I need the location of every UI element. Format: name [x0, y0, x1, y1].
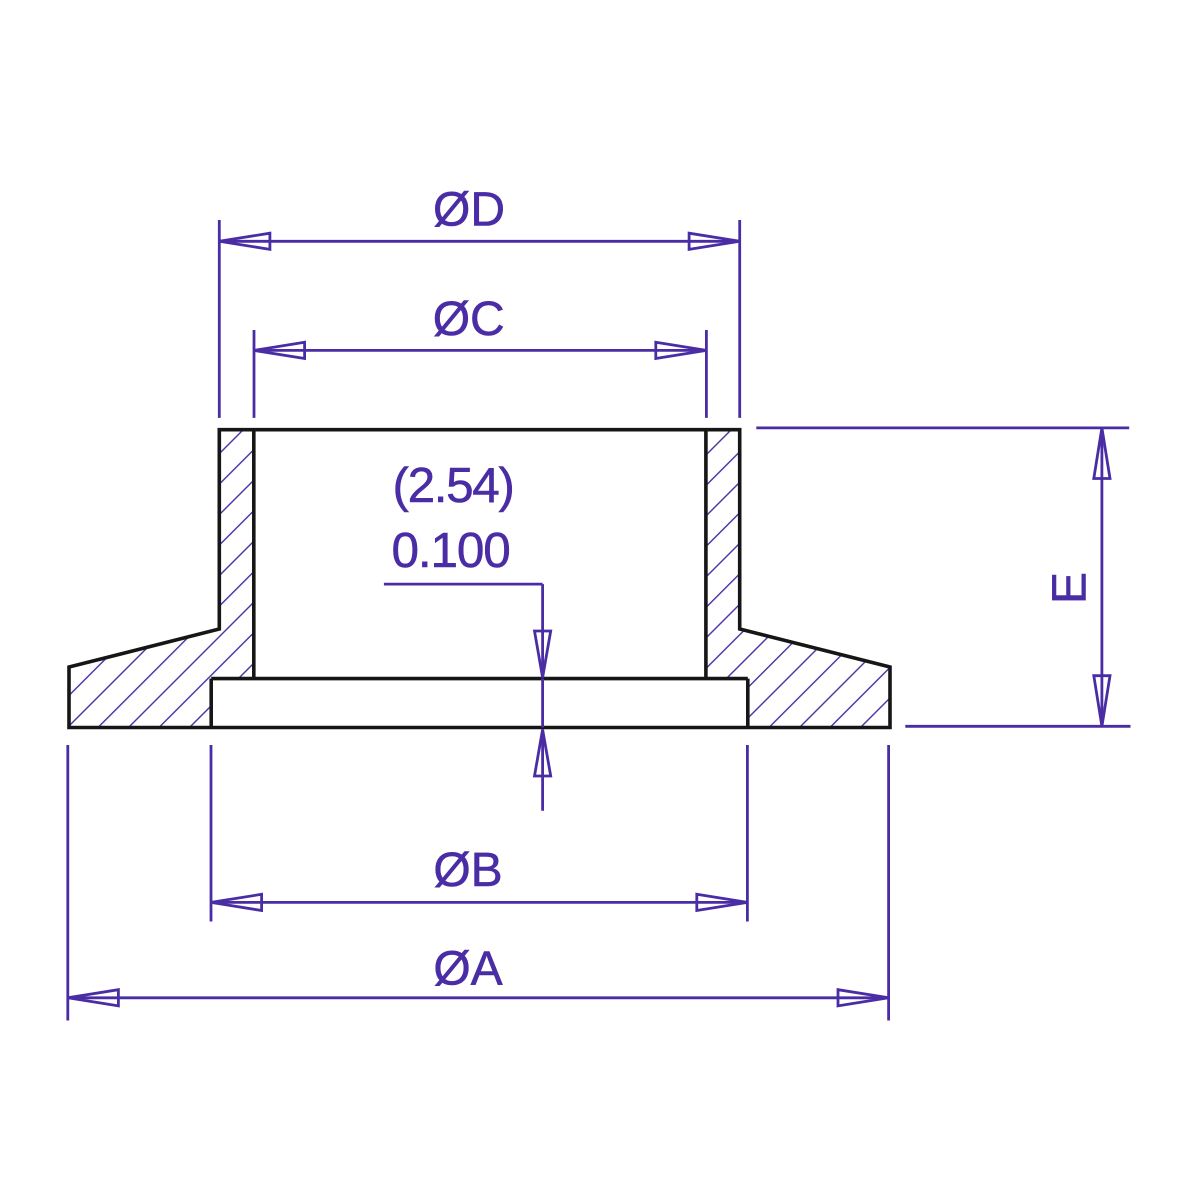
dimension E dimension line [1101, 428, 1104, 726]
svg-text:ØC: ØC [433, 293, 505, 346]
dimension ØC extension lines [254, 330, 706, 418]
dimension ØD extension lines [219, 220, 739, 418]
dimension 0.100 lower arrowhead and tail [535, 730, 551, 811]
section hatching, left flange wall [69, 430, 254, 728]
dimension ØA dimension line [68, 996, 889, 999]
dimension ØA extension lines [68, 745, 889, 1021]
svg-text:(2.54): (2.54) [393, 458, 514, 513]
dimension ØD arrowheads [219, 233, 739, 249]
dimension 0.100 line across lip [541, 679, 544, 728]
dimension ØB extension lines [211, 745, 747, 922]
dimension ØA arrowheads [68, 990, 889, 1006]
dimension ØC dimension line [254, 349, 706, 352]
dimension ØC arrowheads [254, 342, 706, 358]
flange outer silhouette [69, 430, 890, 728]
dimension ØD dimension line [219, 240, 739, 243]
svg-text:ØB: ØB [433, 844, 502, 897]
dimension ØB dimension line [211, 901, 747, 904]
sealing lip top edge [211, 677, 748, 681]
svg-text:ØA: ØA [433, 943, 502, 996]
bore wall left inner edge [252, 430, 256, 679]
svg-text:E: E [1044, 572, 1097, 604]
sealing lip left edge [209, 679, 213, 728]
section hatching, right flange wall [706, 430, 890, 728]
bore wall right inner edge [704, 430, 708, 679]
dimension E arrowheads [1094, 428, 1110, 726]
dimension 0.100 leader line [384, 584, 543, 677]
dimension 0.100 upper arrowhead [535, 631, 551, 678]
dimension E extension lines [756, 428, 1130, 726]
sealing lip right edge [746, 679, 750, 728]
svg-text:0.100: 0.100 [392, 523, 510, 578]
dimension ØB arrowheads [211, 894, 747, 910]
svg-text:ØD: ØD [433, 184, 505, 237]
